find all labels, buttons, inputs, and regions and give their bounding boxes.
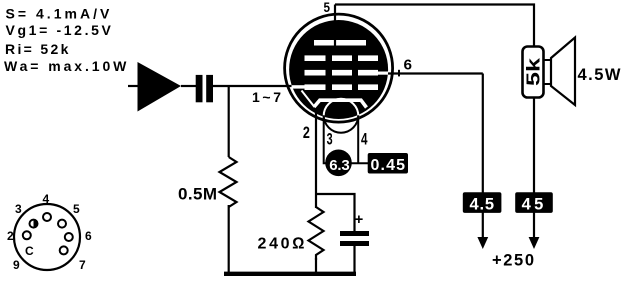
arrow below 45 [529,237,540,249]
g1 lead to left edge [292,85,306,88]
socket pin 5 (upper right) [58,220,66,228]
speaker [544,38,576,106]
socket pin 7 (lower right) [60,246,68,254]
grid row 1 (g3) dashes [305,55,379,61]
ground rail (bottom wire) [224,272,356,276]
test point label 45 [515,192,553,213]
heater current label 0.45 [368,153,408,174]
svg-text:0.5M: 0.5M [178,185,217,204]
svg-text:4.5: 4.5 [470,196,495,214]
socket circle [14,204,80,270]
wire: anode lead to pin 5 [334,5,336,47]
socket pin 3 (upper left, marked) [30,220,38,228]
tube V1 (output pentode) [285,14,393,133]
svg-text:3: 3 [15,202,22,216]
wire: heater leg pin 4 [357,115,359,163]
input signal arrow [138,62,182,112]
capacitor C2 (cathode bypass, electrolytic) [340,211,369,246]
svg-text:5: 5 [324,0,331,15]
svg-text:9: 9 [13,258,20,272]
grid row 3 (g1) dashes [292,84,379,90]
tube inner black disk [289,20,388,119]
output transformer primary 5k [523,47,544,98]
wire: 240 to rail [315,258,317,274]
svg-text:2: 2 [7,229,14,243]
wire: screen grid to pin 6 [388,72,483,74]
resistor R2 240ohm (cathode) [309,207,324,260]
svg-text:+: + [355,211,364,228]
cathode (white hat shape) [302,91,367,108]
svg-text:6.3: 6.3 [329,157,350,174]
socket pin 2 (left) [23,231,31,239]
heater circle [324,99,359,134]
wire: capacitor to rail [353,246,355,274]
svg-text:5: 5 [73,202,80,216]
svg-text:3: 3 [327,130,333,149]
wire: capacitor to grid [213,85,293,87]
svg-text:Wa= max.10W: Wa= max.10W [4,58,127,74]
coupling capacitor C1 [196,75,213,102]
wire: 0.5M to bottom rail [228,205,230,274]
svg-text:2: 2 [303,123,310,142]
wire: heater leg pin 3 [324,115,326,163]
svg-text:4: 4 [361,130,368,149]
tube socket base diagram [7,192,92,272]
svg-text:6: 6 [85,229,92,243]
wire: pin 6 down to 4.5 test point [482,74,484,239]
anode plate (white bar) [314,40,366,46]
svg-text:1~7: 1~7 [252,89,281,105]
svg-text:6: 6 [404,56,413,73]
wire: input stub [128,85,138,87]
arrow below 4.5 [477,237,488,249]
svg-text:C: C [25,244,34,258]
cathode lead (white) [302,91,315,108]
svg-text:0.45: 0.45 [371,157,406,174]
resistor R1 0.5M (grid leak) [220,157,237,207]
wire: cathode pin 2 down [315,111,317,208]
svg-text:5k: 5k [524,57,544,86]
test point label 4.5 [463,192,502,213]
wire: 6.3 to 0.45 [352,162,369,164]
wire: top rail to transformer [335,5,534,49]
svg-text:S= 4.1mA/V: S= 4.1mA/V [6,6,111,22]
svg-text:4: 4 [43,192,50,206]
svg-text:240Ω: 240Ω [258,236,305,253]
wire: junction down to 0.5M resistor [228,86,230,157]
g2 lead to right edge [377,72,390,75]
tube envelope outer ring [285,14,393,122]
wire: cathode branch corner to capacitor [316,194,355,232]
wire: transformer to 45 test point [533,97,535,238]
socket pin 6 (right) [65,233,73,241]
tube parameter text block [4,6,127,75]
grid row 2 (g2) dashes [305,70,391,76]
svg-text:Vg1= -12.5V: Vg1= -12.5V [6,22,112,38]
socket pin 4 (top) [43,213,51,221]
heater voltage label 6.3 [325,150,352,177]
svg-text:7: 7 [79,258,86,272]
wire: arrow to coupling capacitor [181,85,196,87]
svg-text:4.5W: 4.5W [578,66,621,84]
